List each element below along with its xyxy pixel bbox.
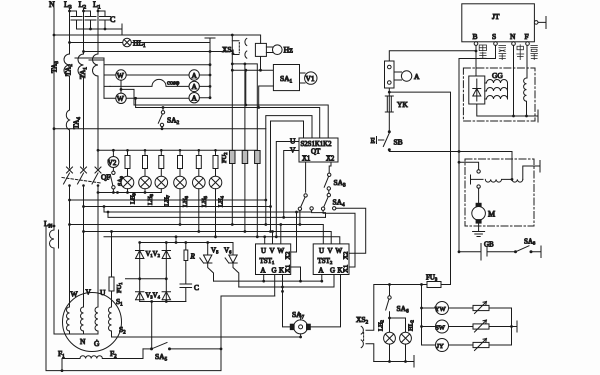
junction	[209, 50, 212, 53]
switch SA9	[112, 171, 115, 174]
ground under M	[473, 223, 485, 236]
rheostat SW	[449, 326, 474, 328]
wire QT V feeder	[284, 151, 299, 218]
fuse FU2 c	[255, 151, 261, 164]
pseudo glyph label dianshu at B	[479, 45, 486, 58]
connector XS1 top plug	[232, 38, 247, 45]
capacitor C phase L1	[98, 11, 111, 29]
lamp LH7	[155, 176, 168, 189]
svg-text:W: W	[71, 290, 79, 299]
junction L2 line tap	[82, 50, 85, 53]
wire N horizontal to XS1	[54, 35, 261, 43]
connector box at A	[385, 61, 395, 88]
wire bus y212 from L3	[68, 199, 71, 202]
svg-text:V: V	[328, 247, 333, 255]
meter YW	[422, 307, 436, 309]
meter A2	[189, 81, 199, 91]
pseudo glyph label zhongdian at N	[517, 45, 524, 60]
relay coil 2	[512, 179, 523, 182]
capacitor C filter	[180, 284, 192, 302]
svg-text:A: A	[192, 82, 198, 91]
wire N drop	[513, 45, 515, 116]
svg-text:cosφ: cosφ	[167, 80, 180, 87]
svg-text:X1: X1	[284, 265, 291, 273]
svg-text:YW: YW	[435, 306, 447, 313]
wire QT S1 feeder	[266, 116, 312, 225]
resistor lamp LH7	[159, 156, 164, 169]
svg-text:GB: GB	[484, 241, 494, 249]
switch SA2	[162, 106, 165, 109]
meter JY	[422, 344, 436, 346]
wire A box top to JT B	[389, 51, 476, 61]
diode V2	[162, 243, 170, 302]
resistor lamp LH6	[178, 156, 183, 169]
svg-text:FU2: FU2	[221, 152, 228, 163]
wire meter top line	[104, 64, 210, 66]
svg-text:Ġ: Ġ	[94, 339, 100, 348]
lamp LH6	[174, 176, 187, 189]
svg-text:S: S	[492, 32, 496, 41]
wire L1 rail	[97, 8, 99, 168]
wire long bus K1	[136, 98, 320, 138]
svg-text:U: U	[261, 247, 266, 255]
svg-text:X2: X2	[284, 252, 291, 260]
diode V3	[136, 292, 144, 302]
pseudo glyph label cichang at F	[531, 45, 538, 59]
wire XS1 bottom to SA1	[232, 69, 273, 71]
junction cap bus L1	[104, 28, 107, 31]
wire bus y231	[84, 232, 332, 244]
wire XS1 dashed link	[238, 43, 240, 54]
resistor lamp LH9	[125, 156, 130, 169]
wire GG bottom bus	[477, 104, 538, 122]
box TST1	[256, 244, 291, 275]
switch below X1	[304, 194, 307, 197]
fuse FU2 b	[242, 151, 248, 164]
breaker QF pole L1	[92, 167, 101, 307]
svg-text:HL2: HL2	[408, 320, 415, 331]
svg-text:U: U	[100, 288, 106, 297]
svg-text:YK: YK	[397, 100, 408, 109]
wire lamp feed bus lower right	[374, 284, 427, 286]
transformer TA2	[78, 54, 83, 76]
wire TST1 W feeder	[280, 225, 282, 244]
switch SA5	[143, 348, 151, 350]
meter cos-phi line	[110, 79, 189, 86]
wire QT X2 drop to SA3	[329, 162, 331, 173]
svg-text:Hz: Hz	[284, 46, 294, 55]
wire collector vertical	[209, 38, 211, 98]
svg-text:A: A	[192, 94, 198, 103]
wire long bus K2	[121, 89, 328, 138]
wire YK to SB	[388, 112, 390, 132]
lamp LH8	[139, 176, 152, 189]
meter A	[394, 72, 402, 80]
wire SA2 bottom line	[54, 128, 266, 130]
contact upper	[459, 162, 479, 169]
wire bus y224	[70, 225, 324, 244]
wire B drop	[475, 45, 477, 76]
svg-text:V: V	[86, 288, 92, 297]
svg-text:A: A	[192, 71, 198, 80]
box JT	[462, 4, 535, 42]
switch SA6	[389, 285, 391, 296]
rheostat JY	[449, 344, 474, 346]
wire TA secondary stubs	[75, 58, 110, 98]
transformer TA3	[64, 54, 70, 76]
wire S2 to SA7 bottom	[112, 336, 301, 338]
svg-text:X1: X1	[342, 265, 349, 273]
wire QT X1 drop	[305, 162, 307, 192]
junction	[231, 69, 234, 72]
svg-text:W: W	[117, 71, 125, 80]
wire N rail	[53, 8, 55, 226]
breaker QF link dashed	[62, 178, 101, 184]
wire A box bottom junction	[388, 88, 390, 96]
svg-text:GG: GG	[492, 71, 503, 80]
wire SA1 lower-left to K1 bus	[259, 86, 274, 108]
wire TST1 G drop	[274, 275, 276, 297]
meter SW	[422, 326, 436, 328]
wire QT S2 feeder	[271, 121, 304, 232]
diode V1	[136, 243, 144, 295]
winding U coil	[95, 307, 98, 334]
wire A meters to collector	[199, 75, 210, 98]
svg-text:LH9: LH9	[130, 192, 137, 204]
meter V2	[108, 157, 119, 168]
wire lamp bottoms	[374, 344, 414, 367]
wire QT U feeder	[276, 142, 299, 237]
wire meter left bus	[421, 285, 423, 346]
svg-text:V1: V1	[306, 74, 315, 83]
switch SA4	[328, 190, 330, 193]
winding exciter coil	[109, 307, 112, 337]
wire lamp feed bus	[98, 149, 257, 151]
box TST2	[313, 244, 349, 275]
svg-text:X1: X1	[302, 156, 310, 163]
rectifier box in GG	[469, 76, 485, 104]
junction L3 HL1 tap	[68, 41, 71, 44]
armature bar	[471, 175, 484, 184]
svg-text:LH5: LH5	[201, 195, 208, 207]
svg-text:LH4: LH4	[218, 195, 225, 207]
box QT	[299, 138, 338, 162]
wire meter right bus	[511, 308, 513, 345]
terminal F	[526, 42, 530, 46]
generator G stator circle	[63, 293, 122, 352]
wire coil out to terminal	[523, 161, 540, 180]
wire to FU3 riser	[389, 92, 450, 284]
resistor lamp LH8	[143, 156, 148, 169]
fuse FU2 a	[230, 151, 236, 164]
winding GG secondary	[524, 78, 527, 116]
svg-text:A: A	[261, 267, 266, 275]
wire L3 rail	[69, 8, 71, 168]
transducer box for Hz	[255, 43, 266, 56]
svg-text:FU1: FU1	[116, 282, 123, 293]
lamp HL2	[390, 318, 406, 332]
capacitor C phase L3	[70, 11, 83, 29]
wire L2 to fuse3 line	[84, 51, 233, 53]
wire SA4 out to TST2 X2	[336, 208, 366, 253]
wire TST1 A drop	[263, 275, 265, 282]
connector XS1 bottom plug	[232, 51, 247, 58]
svg-text:G: G	[272, 267, 277, 275]
wire outer left loop	[53, 225, 56, 228]
wire TST1 X2 feed	[291, 212, 297, 252]
resistor R	[184, 250, 188, 261]
svg-text:LH6: LH6	[182, 195, 189, 207]
wire drop to K2 bus	[245, 70, 247, 105]
wire TST line y289	[239, 286, 334, 288]
switch SA3	[328, 173, 331, 176]
wire bus y236	[104, 237, 340, 244]
svg-text:R: R	[190, 253, 196, 261]
breaker QF pole L2	[78, 167, 87, 307]
pushbutton SB	[377, 133, 390, 147]
wire lamp common y192	[98, 192, 161, 194]
thyristor V5	[200, 243, 212, 264]
meter W lower	[104, 97, 189, 99]
wire Hz box bottom to SA1 line	[260, 57, 262, 71]
switch box SA1	[273, 65, 299, 91]
svg-text:C: C	[194, 283, 199, 292]
breaker QF pole L3	[64, 167, 73, 307]
wire V2 top to lamp feed bus	[112, 150, 114, 156]
terminal B	[474, 42, 478, 46]
svg-text:QF: QF	[101, 173, 111, 182]
lamp LH5	[193, 176, 206, 189]
svg-text:JT: JT	[492, 12, 500, 21]
wire TST1 X1 out	[291, 267, 301, 281]
inductor filter on N rail	[50, 226, 55, 334]
lamp HL1	[123, 38, 132, 47]
wire star bus	[54, 333, 98, 335]
thyristor V6	[225, 243, 237, 264]
wire bus y217 from L2	[82, 205, 85, 208]
wire XS2 left loop	[366, 285, 374, 331]
relay coil 1	[485, 179, 512, 182]
junction L2 cap tap	[82, 10, 85, 13]
svg-text:W: W	[117, 94, 125, 103]
capacitor C phase L2	[84, 11, 97, 29]
wire SB out to relay coil	[389, 150, 512, 180]
svg-text:QT: QT	[311, 148, 321, 156]
meter V1	[300, 73, 306, 83]
wire XS1 drop	[231, 35, 233, 151]
wire SA5 riser to TST1 G line	[221, 295, 275, 297]
wire L2 rail	[83, 8, 85, 168]
motor M	[476, 203, 481, 207]
svg-text:SW: SW	[435, 324, 446, 331]
transformer TA4	[66, 110, 69, 130]
junction L1 cap tap	[97, 10, 100, 13]
lamp LH2	[384, 332, 396, 344]
winding GG primary	[485, 80, 508, 84]
junction	[244, 69, 247, 72]
field winding F1-F2	[62, 359, 80, 371]
wire TST2 K drop to SA7	[310, 275, 341, 327]
terminal S	[494, 42, 498, 46]
contact lower	[477, 185, 480, 188]
wire V2 bottom	[112, 168, 114, 172]
junction on N rail	[53, 34, 56, 37]
svg-text:M: M	[488, 210, 495, 219]
wire S drop and left run	[459, 45, 496, 251]
svg-text:LH2: LH2	[378, 320, 385, 331]
wire TST1 U feeder	[264, 237, 266, 244]
winding W coil	[67, 307, 70, 334]
svg-text:A: A	[414, 72, 420, 81]
bridge mid line	[126, 278, 167, 280]
diode bridge top line	[140, 242, 233, 244]
svg-text:A: A	[319, 267, 324, 275]
relay YK	[385, 96, 393, 112]
lamp LH4	[209, 176, 222, 189]
bridge bottom line	[140, 301, 186, 303]
svg-text:U: U	[319, 247, 324, 255]
meter A3	[189, 93, 199, 103]
svg-text:V3V4: V3V4	[146, 293, 161, 300]
svg-text:G: G	[330, 267, 335, 275]
wire W link vertical	[120, 80, 122, 93]
box starter relay dashed	[465, 159, 534, 226]
svg-text:F: F	[525, 32, 529, 41]
diode V4	[162, 292, 170, 300]
wire TST1 K drop	[282, 275, 284, 292]
svg-text:N: N	[80, 337, 86, 346]
junction	[231, 63, 234, 66]
svg-text:V1V2: V1V2	[146, 251, 160, 258]
terminal N	[512, 42, 516, 46]
svg-text:B: B	[473, 32, 478, 41]
wire TST2 G drop	[333, 275, 335, 288]
svg-text:V: V	[270, 247, 275, 255]
wire capacitor common bus	[77, 28, 123, 30]
wire F drop	[526, 45, 528, 78]
pseudo glyph label raozu at S	[499, 46, 506, 60]
svg-text:K: K	[279, 267, 284, 275]
winding V coil	[81, 307, 84, 334]
svg-text:N: N	[510, 32, 516, 41]
meter Hz	[266, 47, 272, 53]
box GG dashed	[463, 68, 535, 121]
switch SA8	[514, 250, 517, 253]
lamp LH9	[121, 176, 134, 189]
meter A1	[189, 70, 199, 80]
wire TST1 V feeder	[272, 232, 274, 244]
svg-text:X2: X2	[326, 156, 335, 163]
rheostat YW	[449, 307, 474, 309]
fuse FU1	[109, 277, 114, 291]
wire to fuse2	[232, 64, 257, 151]
svg-text:V2: V2	[108, 159, 117, 167]
svg-text:E: E	[371, 136, 376, 145]
svg-text:C: C	[110, 15, 115, 24]
terminal JT right	[534, 21, 538, 25]
riser from bus y236 to bridge	[175, 237, 177, 243]
wire HL1 line	[70, 42, 211, 44]
junction cap bus L2	[89, 28, 92, 31]
svg-text:SB: SB	[394, 138, 403, 147]
junction L3 cap tap	[68, 10, 71, 13]
svg-text:X2: X2	[342, 252, 349, 260]
resistor lamp LH4	[213, 156, 218, 169]
terminal bar over collector	[205, 37, 215, 39]
meter W upper	[104, 74, 189, 76]
resistor lamp LH5	[196, 156, 201, 169]
transformer TA1	[93, 54, 99, 76]
battery GB	[458, 250, 461, 253]
terminal bar cap bus	[121, 24, 123, 34]
svg-text:JY: JY	[437, 343, 445, 350]
wire TST line y281	[214, 280, 322, 282]
wire TST2 A drop	[321, 275, 323, 282]
svg-text:LH8: LH8	[147, 193, 154, 205]
